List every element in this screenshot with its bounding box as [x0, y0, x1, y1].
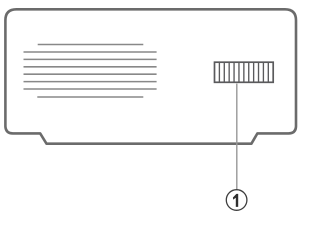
grille slats [219, 62, 268, 82]
label line 8 [37, 96, 143, 98]
label line 5 [24, 73, 157, 75]
callout circle 1 [226, 190, 247, 211]
leader line to callout 1 [236, 84, 238, 190]
label line 2 [24, 51, 157, 53]
label line 4 [24, 66, 157, 68]
device body outline [5, 9, 296, 143]
label line 7 [24, 88, 157, 90]
grille / switch block frame [215, 62, 274, 82]
label line 6 [24, 81, 157, 83]
label line 3 [24, 58, 157, 60]
label line 1 [38, 44, 144, 46]
callout number 1 [233, 194, 238, 207]
